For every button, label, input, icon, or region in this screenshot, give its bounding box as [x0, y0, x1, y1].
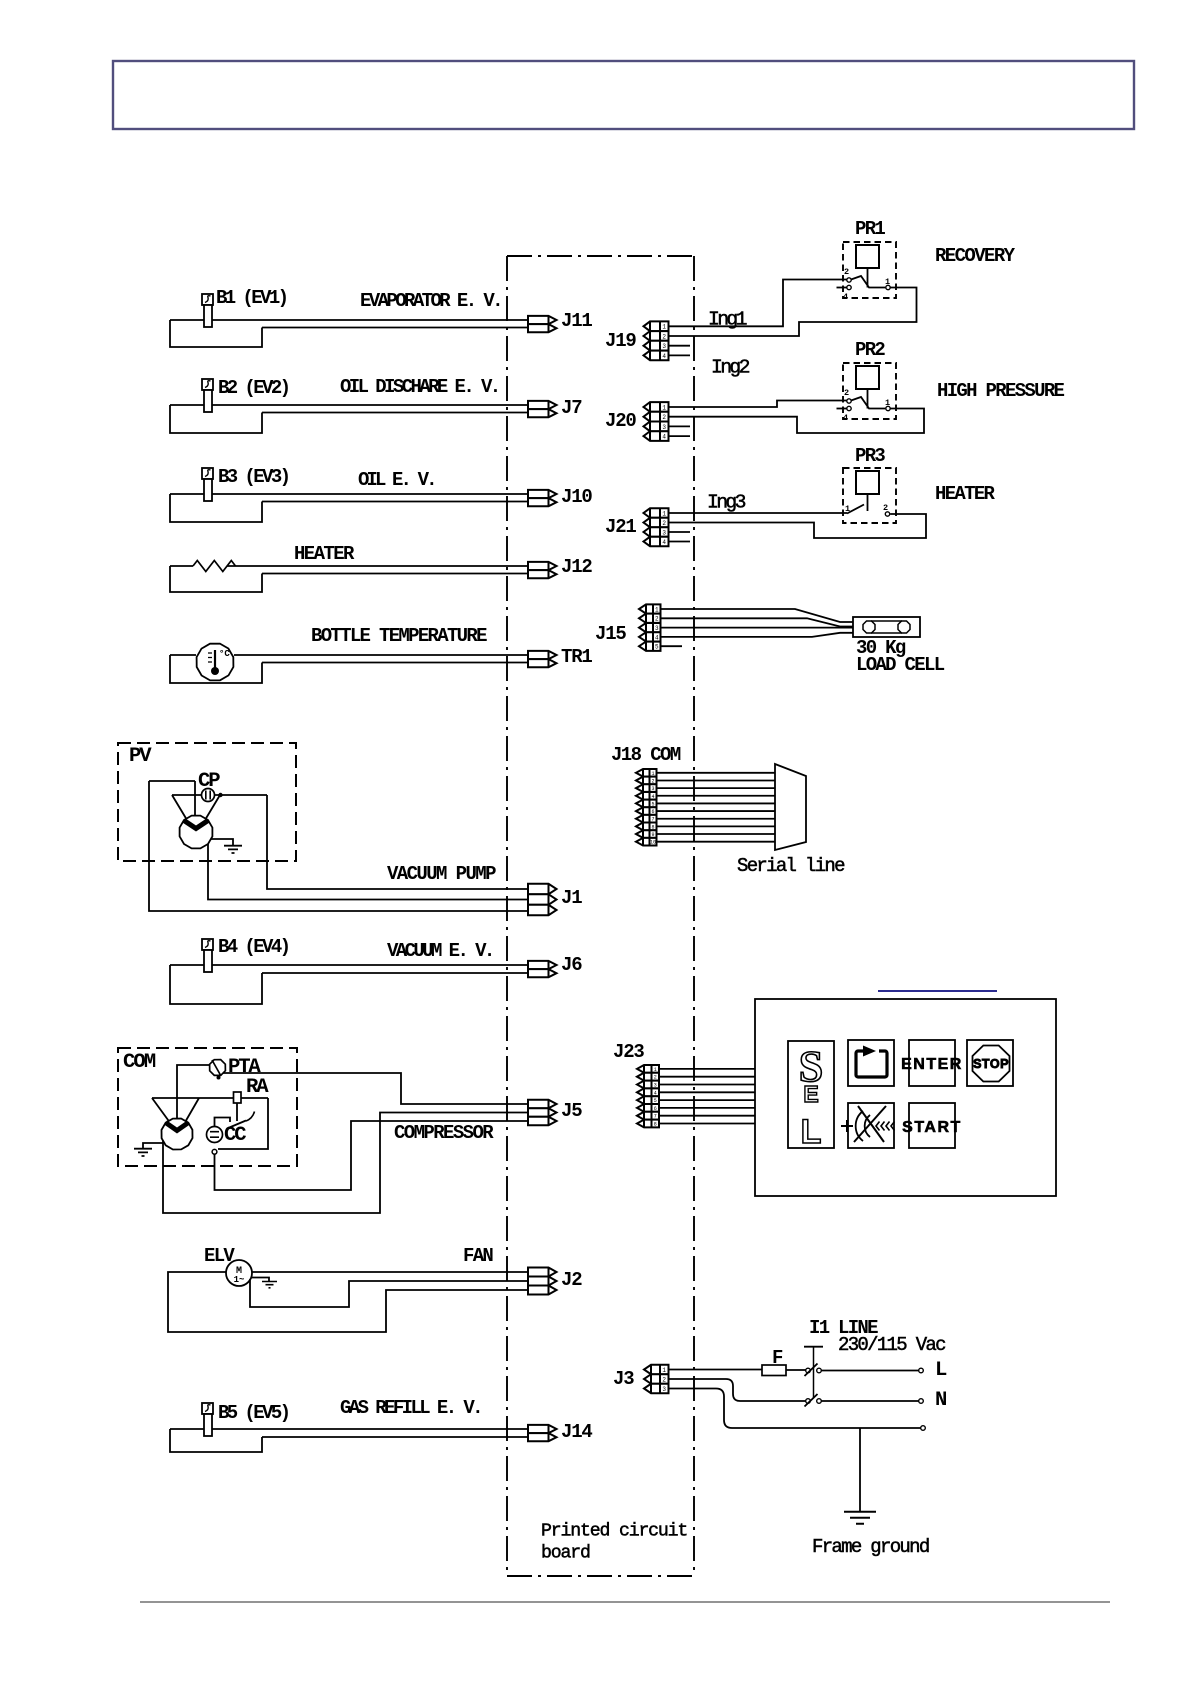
ENTER button box: [909, 1040, 955, 1086]
wire B5 left loop: [170, 1429, 262, 1452]
wire fan to J2 pin1: [252, 1271, 528, 1273]
svg-text:4: 4: [655, 634, 659, 641]
svg-text:Frame ground: Frame ground: [812, 1536, 929, 1558]
wire J23 pin8 to keypad: [659, 1123, 755, 1125]
stub J21 pin3: [669, 531, 691, 533]
svg-text:J2: J2: [561, 1269, 582, 1291]
svg-text:J11: J11: [561, 310, 592, 332]
wire switch to terminal L: [821, 1370, 918, 1372]
PR1 switch blade: [851, 276, 885, 288]
PR2 contact 4 with stub: [847, 406, 851, 410]
wire J23 pin6 to keypad: [659, 1107, 755, 1109]
wire J15 pin1 to load cell: [661, 609, 854, 622]
vacuum pump motor: [180, 816, 213, 849]
PR3 switch blade: [847, 505, 864, 514]
wire switch to terminal N: [821, 1400, 918, 1402]
wire J18 pin8 to serial connector: [657, 825, 776, 827]
svg-text:2: 2: [662, 520, 666, 527]
wire motor to J5 pin2: [163, 1113, 528, 1214]
wire J15 pin2 to load cell: [661, 618, 854, 626]
wire fan to J2 pin2: [250, 1279, 528, 1307]
thermal protector PTA: [210, 1060, 226, 1076]
svg-text:8: 8: [654, 1122, 657, 1128]
svg-text:ELV: ELV: [204, 1245, 235, 1267]
svg-text:J19: J19: [605, 330, 636, 352]
svg-text:Printed circuit: Printed circuit: [541, 1522, 687, 1542]
svg-text:2: 2: [655, 616, 659, 623]
svg-text:J23: J23: [613, 1041, 644, 1063]
svg-text:RA: RA: [246, 1076, 269, 1099]
wire B2 top: [170, 404, 528, 406]
svg-text:2: 2: [662, 414, 666, 421]
stub J20 pin3: [669, 425, 691, 427]
junction CC bottom: [212, 1149, 217, 1154]
wire J23 pin3 to keypad: [659, 1084, 755, 1086]
wire B2 left loop: [170, 405, 262, 433]
printed circuit board dash-dot boundary: [507, 256, 694, 1576]
junction dot at CP output: [218, 793, 222, 797]
wire PR2 return to J20 pin2: [669, 409, 925, 434]
svg-text:BOTTLE TEMPERATURE: BOTTLE TEMPERATURE: [311, 625, 487, 647]
PR1 sensing element: [856, 245, 879, 268]
ground at fan: [251, 1278, 269, 1282]
connector J1: [528, 884, 557, 894]
wire heater return: [262, 573, 528, 575]
wire J18 pin2 to serial connector: [657, 779, 776, 781]
svg-text:4: 4: [662, 539, 666, 546]
svg-text:J15: J15: [595, 623, 626, 645]
svg-text:1~: 1~: [234, 1275, 245, 1285]
load cell holes: [863, 621, 875, 633]
svg-text:J20: J20: [605, 410, 636, 432]
switch I1 pole N contacts: [806, 1399, 811, 1404]
connector J14: [528, 1425, 557, 1433]
serial line connector: [775, 764, 806, 850]
connector J7: [528, 401, 557, 409]
mute button box: [848, 1103, 894, 1148]
connector J21: [644, 508, 669, 518]
compressor funnel: [152, 1098, 199, 1124]
svg-text:ENTER: ENTER: [901, 1056, 963, 1073]
svg-text:B5 (EV5): B5 (EV5): [218, 1402, 289, 1424]
svg-text:2: 2: [844, 388, 849, 398]
svg-text:1: 1: [662, 510, 666, 517]
capacitor CC: [207, 1127, 223, 1143]
switch I1 pole L contacts: [806, 1368, 811, 1373]
svg-text:J14: J14: [561, 1421, 592, 1443]
svg-text:J18 COM: J18 COM: [611, 744, 681, 766]
svg-text:board: board: [541, 1544, 590, 1564]
connector J18: [636, 769, 657, 777]
wire bottle temp return: [262, 662, 528, 664]
stub J19 pin3: [669, 345, 691, 347]
svg-text:1: 1: [845, 504, 850, 514]
pump funnel: [172, 795, 220, 820]
connector J23: [637, 1065, 659, 1073]
svg-text:HEATER: HEATER: [935, 483, 996, 505]
svg-text:4: 4: [843, 292, 848, 302]
svg-text:2: 2: [883, 503, 888, 513]
wire B4 top: [170, 964, 528, 966]
switch I1 pole L blade: [805, 1364, 818, 1377]
PR3 actuator stem: [867, 494, 869, 511]
SEL box: [788, 1041, 834, 1148]
connector J3: [644, 1365, 669, 1374]
switch I1 link: [813, 1348, 815, 1399]
wire J23 pin4 to keypad: [659, 1091, 755, 1093]
wire B1 left loop: [170, 320, 262, 347]
svg-text:4: 4: [662, 353, 666, 360]
PR2 contact 1: [886, 406, 890, 410]
svg-text:3: 3: [662, 343, 666, 350]
cycle icon: [856, 1051, 887, 1077]
wire J18 pin9 to serial connector: [657, 833, 776, 835]
PR3 contact 2: [885, 512, 889, 516]
pressure switch PR1 dashed box: [843, 242, 896, 298]
wire to frame ground: [859, 1428, 861, 1511]
switch I1 pole N blade: [805, 1394, 818, 1407]
START button box: [909, 1103, 955, 1148]
svg-text:START: START: [902, 1119, 962, 1136]
connector J5: [528, 1100, 557, 1108]
wire pump to J1 pin2: [208, 840, 528, 900]
solenoid B1: [202, 294, 213, 305]
svg-text:Serial line: Serial line: [737, 855, 845, 877]
bottom rule: [140, 1601, 1110, 1603]
wire pump to J1 pin1: [267, 795, 528, 889]
wire heater top: [170, 565, 528, 567]
wire B3 return: [262, 501, 528, 503]
wire PTA left + down: [177, 1065, 209, 1128]
stub J15 pin5: [661, 645, 683, 647]
svg-text:1: 1: [662, 404, 666, 411]
svg-text:TR1: TR1: [561, 646, 592, 668]
svg-text:1: 1: [662, 1367, 666, 1374]
connector J20: [644, 402, 669, 412]
wire B4 return: [262, 972, 528, 974]
wire PV center vertical: [194, 781, 196, 827]
svg-text:RECOVERY: RECOVERY: [935, 245, 1016, 267]
wire Ing3 J21 pin1 to PR3: [669, 512, 848, 514]
starting relay RA: [234, 1092, 242, 1103]
PR2 sensing element: [856, 366, 879, 389]
wire CC bracket: [215, 1118, 231, 1127]
PR2 contact 2: [847, 399, 851, 403]
wire J18 pin3 to serial connector: [657, 787, 776, 789]
wire PV capacitor line: [172, 794, 267, 796]
wire CC to J5 pin3: [215, 1121, 529, 1190]
wire J23 pin5 to keypad: [659, 1099, 755, 1101]
svg-text:HIGH PRESSURE: HIGH PRESSURE: [937, 380, 1065, 402]
wire Ing1 J19 pin1 to PR1: [669, 280, 847, 327]
resistor heater element: [193, 561, 236, 572]
wire B4 left loop: [170, 965, 262, 1004]
svg-text:1: 1: [885, 277, 890, 287]
svg-text:4: 4: [843, 413, 848, 423]
svg-text:GAS REFILL E. V.: GAS REFILL E. V.: [340, 1397, 481, 1419]
svg-text:°C: °C: [219, 649, 230, 659]
svg-text:J5: J5: [561, 1100, 582, 1122]
svg-text:L: L: [935, 1359, 947, 1382]
wire J3 pin3 earth: [669, 1389, 921, 1429]
wire J18 pin6 to serial connector: [657, 810, 776, 812]
wire J3 pin1 to fuse: [669, 1369, 763, 1371]
blue underline artifact: [878, 990, 997, 992]
wire Ing2 J20 pin1 to PR2: [669, 401, 847, 408]
svg-text:1: 1: [662, 324, 666, 331]
svg-text:PR3: PR3: [855, 445, 885, 467]
svg-text:B1 (EV1): B1 (EV1): [216, 287, 287, 309]
pressure switch PR2 dashed box: [843, 363, 896, 419]
PR2 actuator stem: [867, 389, 869, 409]
wire RA to CC junction: [218, 1098, 268, 1149]
PR1 contact 4 with stub: [847, 285, 851, 289]
wire B5 return: [262, 1436, 528, 1438]
connector J12: [528, 562, 557, 570]
svg-text:EVAPORATOR E. V.: EVAPORATOR E. V.: [360, 290, 501, 312]
svg-text:1: 1: [655, 606, 659, 613]
svg-text:230/115 Vac: 230/115 Vac: [838, 1334, 946, 1356]
svg-text:3: 3: [655, 625, 659, 632]
svg-text:FAN: FAN: [463, 1245, 493, 1267]
wire PTA to J5 pin1: [223, 1073, 528, 1104]
wire J18 pin7 to serial connector: [657, 818, 776, 820]
ground at vacuum pump: [211, 839, 233, 845]
svg-text:PR1: PR1: [855, 218, 885, 240]
wire J15 pin4 to load cell: [661, 633, 854, 637]
wire J15 pin3 to load cell: [661, 627, 854, 629]
vacuum pump motor shading: [184, 821, 208, 829]
connector J11: [528, 316, 557, 324]
STOP octagon: [973, 1046, 1010, 1082]
svg-text:Ing2: Ing2: [711, 357, 750, 379]
wire PR3 return to J21 pin2: [669, 514, 927, 538]
svg-text:OIL E. V.: OIL E. V.: [358, 469, 435, 491]
solenoid B3: [202, 468, 213, 479]
PR1 contact 1: [886, 285, 890, 289]
fuse F: [762, 1365, 786, 1376]
wire J18 pin5 to serial connector: [657, 802, 776, 804]
fan motor ELV: [226, 1260, 252, 1286]
svg-text:VACUUM E. V.: VACUUM E. V.: [387, 940, 493, 962]
ground at compressor: [143, 1143, 163, 1148]
STOP button box: [967, 1040, 1013, 1086]
svg-text:PR2: PR2: [855, 339, 885, 361]
PR1 actuator stem: [867, 268, 869, 288]
connector J15: [639, 604, 661, 613]
wire B2 return: [262, 412, 528, 414]
wire PV top-left: [149, 780, 195, 782]
svg-text:J10: J10: [561, 486, 592, 508]
cycle button box: [848, 1040, 894, 1086]
centrifugal switch blade: [227, 1121, 246, 1129]
svg-text:Ing3: Ing3: [707, 492, 746, 514]
svg-text:3: 3: [662, 424, 666, 431]
solenoid B5: [202, 1403, 213, 1414]
svg-text:E: E: [803, 1081, 818, 1107]
wire B1 return: [262, 327, 528, 329]
svg-text:CC: CC: [224, 1124, 246, 1147]
PR1 contact 2: [847, 278, 851, 282]
wire RA stem: [236, 1103, 238, 1121]
svg-text:VACUUM PUMP: VACUUM PUMP: [387, 863, 496, 885]
svg-text:N: N: [935, 1389, 946, 1412]
wire fuse to switch: [786, 1369, 806, 1371]
stub J20 pin4: [669, 435, 691, 437]
solenoid B2: [202, 379, 213, 390]
wire J23 pin1 to keypad: [659, 1068, 755, 1070]
compressor motor shading: [166, 1123, 189, 1131]
svg-text:J7: J7: [561, 397, 582, 419]
svg-text:3: 3: [662, 529, 666, 536]
capacitor CP: [202, 789, 215, 802]
svg-text:J12: J12: [561, 556, 592, 578]
load cell body: [853, 617, 920, 637]
svg-text:STOP: STOP: [973, 1057, 1009, 1071]
wire J18 pin1 to serial connector: [657, 772, 776, 774]
svg-text:OIL DISCHARE E. V.: OIL DISCHARE E. V.: [340, 376, 499, 398]
svg-text:5: 5: [655, 644, 659, 651]
PV dashed box: [118, 743, 296, 861]
svg-text:3: 3: [662, 1386, 666, 1393]
svg-text:2: 2: [662, 333, 666, 340]
connector J19: [644, 321, 669, 331]
svg-text:J1: J1: [561, 887, 582, 909]
svg-text:HEATER: HEATER: [294, 543, 355, 565]
wire PR1 return to J19 pin2: [669, 288, 917, 337]
wire B1 top: [170, 319, 528, 321]
svg-text:1: 1: [885, 398, 890, 408]
svg-text:F: F: [772, 1347, 783, 1369]
wire COM coil line: [152, 1097, 268, 1099]
svg-text:L: L: [801, 1113, 822, 1151]
svg-text:J21: J21: [605, 516, 636, 538]
wire J23 pin2 to keypad: [659, 1076, 755, 1078]
wire B3 top: [170, 493, 528, 495]
wire B3 left loop: [170, 494, 262, 522]
svg-text:B2 (EV2): B2 (EV2): [218, 377, 289, 399]
stub J21 pin4: [669, 541, 691, 543]
connector TR1: [528, 651, 557, 659]
svg-text:Ing1: Ing1: [708, 309, 747, 331]
solenoid B4: [202, 939, 213, 950]
svg-text:LOAD CELL: LOAD CELL: [856, 654, 945, 676]
svg-text:COM: COM: [123, 1051, 156, 1074]
terminal L: [919, 1368, 924, 1373]
svg-text:2: 2: [844, 267, 849, 277]
svg-text:J6: J6: [561, 954, 582, 976]
title block border frame: [113, 61, 1134, 129]
bottle temperature probe TR1 symbol: [197, 644, 234, 681]
connector J2: [528, 1268, 557, 1277]
wire J18 pin4 to serial connector: [657, 795, 776, 797]
wire bottle temp top: [170, 654, 528, 656]
terminal earth: [921, 1426, 926, 1431]
compressor motor: [162, 1119, 193, 1150]
wire fan left loop to J2 pin3: [168, 1272, 528, 1332]
connector J6: [528, 961, 557, 969]
svg-text:COMPRESSOR: COMPRESSOR: [394, 1122, 494, 1144]
wire J18 pin10 to serial connector: [657, 841, 776, 843]
svg-text:4: 4: [662, 434, 666, 441]
svg-text:J3: J3: [613, 1368, 634, 1390]
svg-text:10: 10: [650, 840, 656, 846]
wire J23 pin7 to keypad: [659, 1115, 755, 1117]
wire heater left loop: [170, 566, 262, 592]
svg-text:B4 (EV4): B4 (EV4): [218, 936, 289, 958]
frame ground symbol: [844, 1512, 876, 1524]
wire B5 top: [170, 1428, 528, 1430]
wire bottle temp left loop: [170, 655, 262, 683]
pressure switch PR3 dashed box: [843, 468, 896, 523]
keypad panel box: [755, 999, 1056, 1196]
svg-text:B3 (EV3): B3 (EV3): [218, 466, 289, 488]
svg-text:2: 2: [662, 1376, 666, 1383]
PR3 sensing element: [856, 471, 879, 494]
stub J19 pin4: [669, 354, 691, 356]
terminal N: [919, 1399, 924, 1404]
PR2 switch blade: [851, 397, 885, 409]
wire J3 pin2 to switch: [669, 1379, 806, 1401]
svg-text:I1: I1: [809, 1317, 830, 1339]
mute icon: [841, 1120, 853, 1132]
svg-text:PV: PV: [129, 745, 152, 768]
COM dashed box: [118, 1048, 297, 1166]
wire pump to J1 pin3: [149, 781, 528, 911]
connector J10: [528, 490, 557, 498]
